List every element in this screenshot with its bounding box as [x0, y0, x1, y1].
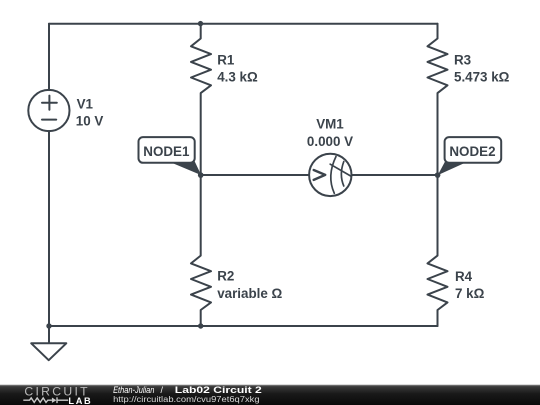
wire bottom horizontal [49, 325, 438, 327]
svg-text:V1: V1 [77, 96, 94, 111]
svg-text:Ethan-Julian: Ethan-Julian [113, 385, 154, 395]
voltage source V1 [28, 90, 69, 131]
svg-text:4.3 kΩ: 4.3 kΩ [217, 70, 258, 85]
resistor R3 [428, 24, 448, 175]
svg-text:7 kΩ: 7 kΩ [455, 286, 485, 301]
wire left rail lower [48, 131, 50, 326]
svg-text:10 V: 10 V [76, 113, 104, 128]
svg-text:R4: R4 [455, 269, 473, 284]
svg-text:R3: R3 [454, 52, 471, 67]
wire left rail upper [48, 24, 50, 90]
node dot bottom ground [46, 323, 51, 328]
svg-text:variable Ω: variable Ω [217, 286, 282, 301]
svg-text:0.000 V: 0.000 V [307, 134, 353, 149]
resistor R1 [191, 24, 211, 175]
svg-text:LAB: LAB [68, 396, 92, 405]
svg-text:R2: R2 [217, 269, 234, 284]
node flag NODE1 [139, 137, 202, 175]
node dot NODE2 [435, 172, 441, 178]
wire middle left (NODE1 to voltmeter) [201, 174, 309, 176]
node dot top R1 [198, 21, 203, 26]
wire top horizontal [49, 23, 438, 25]
svg-text:R1: R1 [217, 52, 235, 67]
svg-text:http://circuitlab.com/cvu97et6: http://circuitlab.com/cvu97et6q7xkg [113, 395, 260, 404]
resistor R4 [428, 175, 448, 326]
node dot NODE1 [198, 172, 204, 178]
resistor R2 [191, 175, 211, 326]
svg-text:Lab02 Circuit 2: Lab02 Circuit 2 [175, 385, 262, 395]
logo zigzag + diode [23, 397, 68, 403]
ground [48, 326, 50, 343]
svg-text:NODE2: NODE2 [449, 144, 495, 159]
node flag NODE2 [438, 137, 501, 175]
wire middle right (voltmeter to NODE2) [352, 174, 437, 176]
svg-text:VM1: VM1 [316, 117, 344, 132]
svg-text:NODE1: NODE1 [143, 144, 190, 159]
svg-text:5.473 kΩ: 5.473 kΩ [454, 70, 510, 85]
node dot bottom R2 [198, 323, 203, 328]
voltmeter VM1 [309, 154, 351, 196]
